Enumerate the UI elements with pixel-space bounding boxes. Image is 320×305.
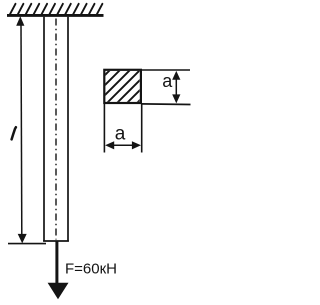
bottom reference line [8,243,46,245]
left extension line [103,104,105,153]
dimension a horizontal left arrowhead [105,141,114,149]
label l [12,127,16,139]
dimension line l shaft [20,24,23,235]
bar centerline (dash-dot) [55,19,57,240]
dimension a horizontal shaft [107,144,139,146]
dimension l bottom arrowhead [18,234,27,244]
dimension a vertical shaft [175,76,177,97]
cross-section outline [104,70,141,103]
right extension line [141,104,143,153]
svg-text:F=60кН: F=60кН [65,261,117,278]
dimension a horizontal right arrowhead [132,141,141,149]
cross-section hatching [100,40,200,140]
dimension a vertical bottom arrowhead [172,94,180,103]
bar bottom edge [43,240,69,242]
fixed support wall line [7,14,104,17]
force F shaft [55,241,58,284]
fixed support hatching [10,4,102,14]
svg-text:a: a [115,124,126,145]
bottom extension line [141,103,191,106]
bar left edge [43,17,45,242]
dimension a vertical top arrowhead [172,71,180,80]
force F arrowhead [48,283,69,299]
dimension l top arrowhead [16,16,24,26]
svg-text:a: a [162,71,173,91]
bar right edge [67,17,69,242]
top extension line [141,69,190,71]
